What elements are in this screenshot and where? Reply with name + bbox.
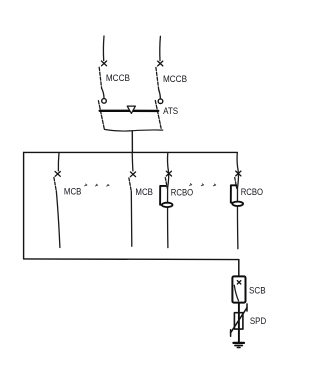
- breaker MCCB1 blade: [99, 67, 101, 88]
- branch 3 wire (through RCBO): [168, 153, 169, 248]
- wire: SCB to SPD: [238, 303, 240, 343]
- breaker MCCB2 cross (open-contact mark): [158, 61, 163, 66]
- breaker RCBO2 blade: [235, 178, 237, 189]
- ATS input contact circle 1: [102, 99, 107, 104]
- breaker MCCB1 cross (open-contact mark): [102, 61, 107, 66]
- RCBO2 residual-current bracket: [231, 185, 237, 203]
- svg-text:RCBO: RCBO: [171, 187, 193, 197]
- breaker MCB1 cross: [55, 172, 60, 177]
- wire: utility incoming source 1: [102, 36, 105, 61]
- svg-text:MCB: MCB: [135, 187, 153, 197]
- ground symbol line 3: [237, 347, 240, 349]
- SCB enclosure box: [232, 276, 245, 302]
- wire: bottom feed drop to SCB: [238, 260, 240, 277]
- breaker MCB1 blade: [54, 178, 56, 191]
- branch 2 stub wire: [131, 152, 134, 171]
- svg-text:MCCB: MCCB: [106, 73, 130, 83]
- wire: ATS output feed to busbar: [131, 131, 133, 153]
- branch 2 outgoing wire: [130, 191, 133, 246]
- svg-text:RCBO: RCBO: [241, 187, 263, 197]
- breaker MCB2 blade: [129, 178, 131, 191]
- ATS input contact circle 2: [158, 99, 163, 104]
- ATS common bar: [100, 110, 159, 112]
- breaker MCCB2 blade: [156, 67, 159, 89]
- wire: utility incoming source 2: [159, 36, 162, 60]
- breaker RCBO1 cross: [166, 171, 171, 176]
- ellipsis ticks between MCB circuits: [85, 184, 87, 186]
- ellipsis ticks between RCBO circuits: [189, 184, 191, 186]
- ATS wiper triangle: [127, 106, 135, 113]
- branch 1 stub wire: [57, 153, 60, 171]
- svg-text:MCCB: MCCB: [163, 74, 187, 84]
- panel left edge wire: [23, 152, 25, 259]
- RCBO1 residual-current bracket: [160, 186, 166, 205]
- busbar top line: [24, 151, 238, 153]
- branch 1 outgoing wire: [56, 191, 60, 248]
- svg-text:MCB: MCB: [64, 187, 82, 197]
- panel bottom wire: [24, 258, 239, 261]
- wire to ATS input contact 1: [102, 88, 104, 97]
- wire to ATS input contact 2: [159, 90, 161, 99]
- SPD body rectangle: [234, 313, 243, 329]
- svg-text:SCB: SCB: [249, 285, 266, 295]
- breaker RCBO1 blade: [165, 178, 167, 189]
- ground symbol line 2: [235, 345, 242, 347]
- branch 4 wire (through RCBO): [237, 153, 238, 249]
- svg-text:SPD: SPD: [250, 316, 267, 326]
- svg-text:ATS: ATS: [163, 106, 178, 116]
- SPD varistor diagonal: [231, 308, 247, 333]
- RCBO2 sensing toroid ellipse: [232, 202, 243, 206]
- SCB blade: [234, 285, 238, 301]
- SPD diagonal top tail: [246, 304, 248, 311]
- breaker RCBO2 cross: [236, 171, 241, 176]
- SPD diagonal bottom tail: [230, 330, 232, 337]
- breaker MCB2 cross: [130, 172, 135, 177]
- SCB cross mark: [237, 281, 241, 284]
- ATS left blade: [98, 101, 104, 129]
- ATS right blade: [155, 101, 161, 130]
- RCBO1 sensing toroid ellipse: [162, 203, 173, 207]
- ground symbol line 1: [233, 342, 244, 344]
- ATS body bottom stroke: [104, 129, 162, 131]
